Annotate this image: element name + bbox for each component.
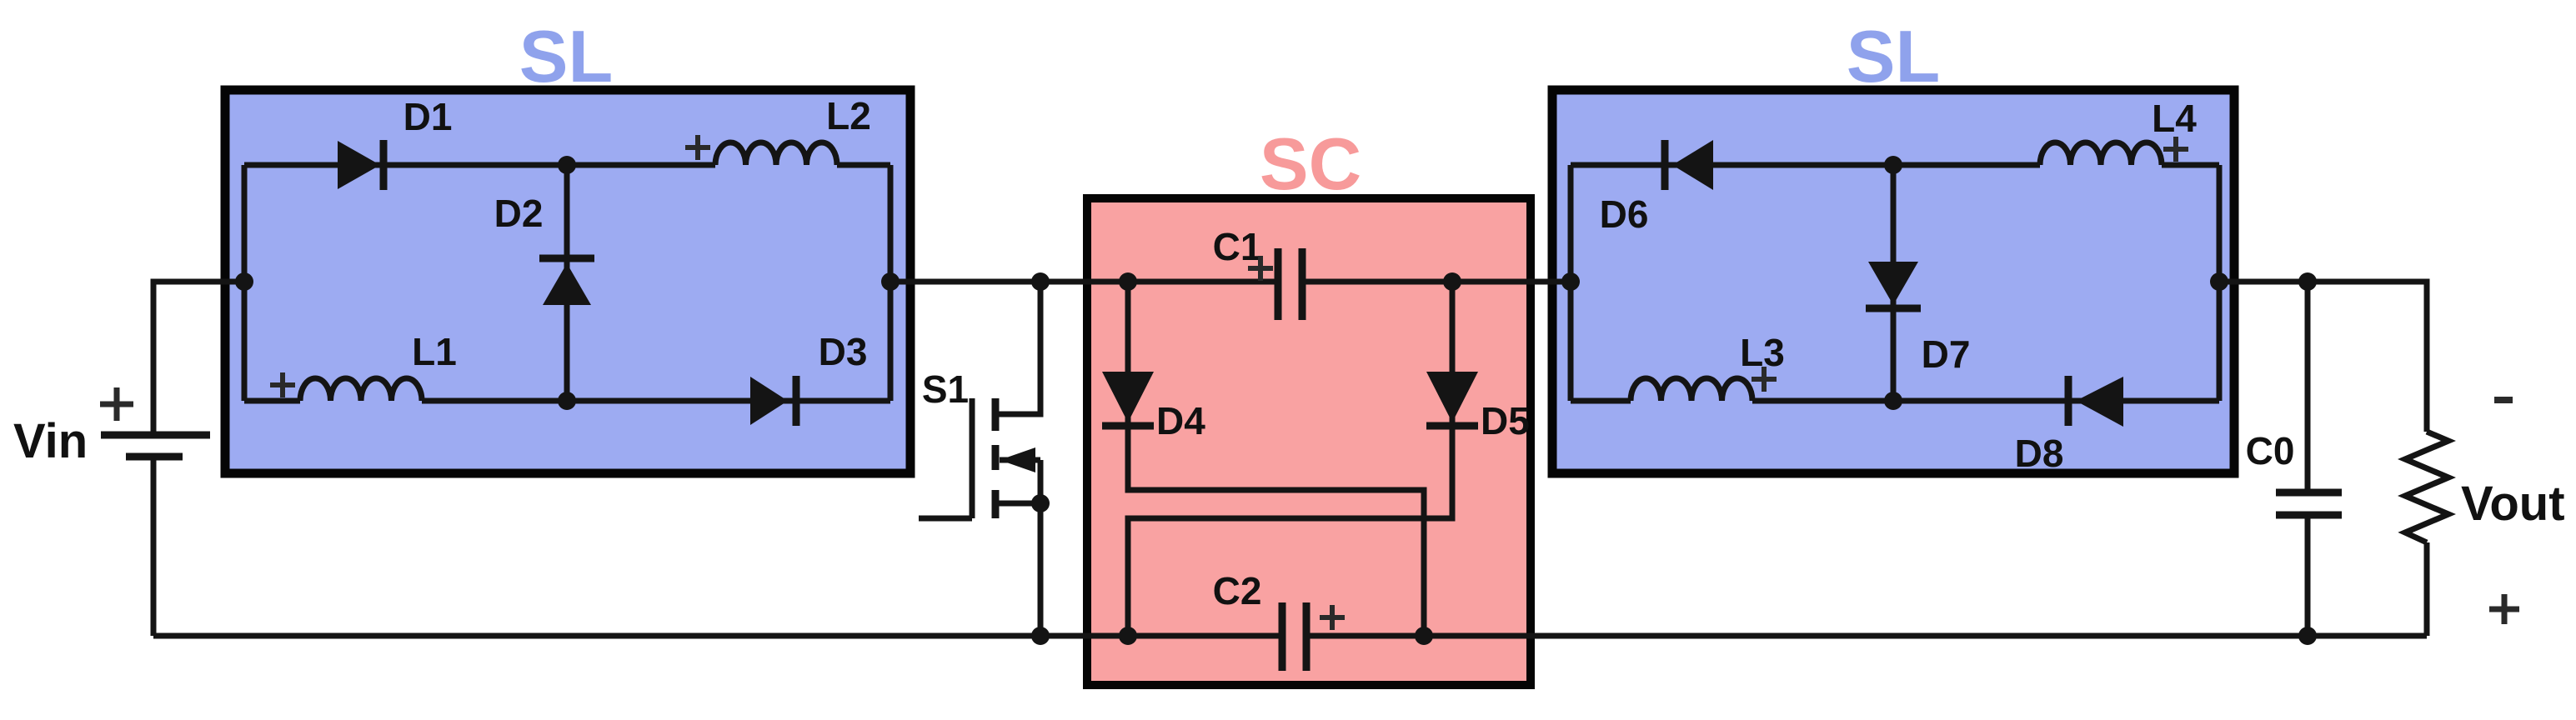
junction dot D5 branch to bottom rail	[1119, 627, 1137, 645]
bottom rail wire (left part, to C2 left plate)	[153, 633, 1279, 639]
wire: bottom rail right of L1	[422, 398, 890, 404]
inductor L2	[715, 142, 837, 165]
junction dot S1 drain tee	[1031, 272, 1050, 291]
plus sign of Vout	[2489, 594, 2519, 624]
svg-text:Vout: Vout	[2461, 477, 2565, 531]
diode D4 with branch wire	[1128, 282, 1424, 636]
wire: C1 right plate to cell 2	[1306, 279, 1571, 285]
SL cell 1 box	[225, 90, 910, 473]
wire: middle vertical of cell 1	[564, 165, 570, 401]
capacitor C0	[2276, 492, 2342, 515]
svg-text:Vin: Vin	[13, 414, 88, 468]
svg-text:L2: L2	[826, 94, 871, 137]
junction dot S1 to bottom rail	[1031, 627, 1050, 645]
resistor Vout load	[2405, 432, 2448, 542]
junction dot C0 top	[2298, 272, 2317, 291]
plus sign of L4	[2163, 137, 2188, 162]
wire: top rail of cell 2	[1571, 162, 2040, 168]
svg-text:D7: D7	[1922, 332, 1971, 376]
junction dot C0 bottom	[2298, 627, 2317, 645]
svg-text:L3: L3	[1740, 331, 1785, 374]
wire: cell 2 output to load	[2219, 282, 2427, 432]
plus sign of L1	[270, 372, 295, 397]
svg-text:S1: S1	[922, 367, 969, 411]
wire: C0 top lead	[2305, 282, 2311, 492]
svg-text:L4: L4	[2152, 97, 2197, 140]
inductor L4	[2040, 142, 2162, 165]
minus sign of Vout	[2494, 397, 2513, 403]
wire: bottom rail of cell 1	[244, 398, 300, 404]
svg-text:D8: D8	[2015, 432, 2064, 475]
svg-text:D1: D1	[403, 95, 453, 138]
wire: top rail right of L2	[837, 162, 890, 168]
svg-text:D5: D5	[1481, 399, 1530, 442]
wire: right inner vertical of cell 2	[2217, 165, 2223, 401]
svg-text:SL: SL	[519, 15, 613, 97]
diode D3	[750, 376, 796, 426]
wire: C0 bottom lead	[2305, 515, 2311, 636]
wire: load bottom lead	[2424, 542, 2430, 636]
svg-text:SL: SL	[1847, 15, 1940, 97]
wire: top rail of cell 1	[244, 162, 715, 168]
diode D5 with branch wire	[1128, 282, 1452, 636]
diode D6	[1665, 140, 1713, 190]
junction dot node bottom-mid cell 2	[1884, 392, 1902, 410]
svg-text:L1: L1	[412, 330, 457, 373]
plus sign of C1	[1248, 256, 1273, 281]
plus sign of L2	[685, 135, 710, 160]
svg-text:SC: SC	[1260, 122, 1361, 205]
diode D8	[2068, 376, 2123, 427]
svg-text:D2: D2	[494, 192, 544, 235]
inductor L3	[1631, 378, 1752, 401]
plus sign of C2	[1320, 605, 1345, 630]
svg-text:D6: D6	[1600, 192, 1649, 236]
wire: S1 source down to bottom rail	[1038, 460, 1044, 636]
diode D2	[539, 258, 594, 305]
junction dot node A (Vin joins cell 1)	[235, 272, 253, 291]
diode D7	[1866, 262, 1921, 308]
wire: bottom rail of cell 2	[1571, 398, 1631, 404]
wire: bottom rail right of L3	[1752, 398, 2219, 404]
wire: right inner vertical of cell 1	[888, 165, 894, 401]
bottom rail wire (right part, from C2 right plate)	[1310, 633, 2427, 639]
SC cell box	[1087, 198, 1531, 685]
diode D1	[338, 140, 383, 190]
svg-text:C2: C2	[1213, 569, 1262, 612]
junction dot node top-mid cell 1	[558, 156, 576, 174]
wire: middle vertical of cell 2	[1891, 165, 1897, 401]
wire: cell 1 output to SC input	[890, 279, 1275, 285]
svg-text:C0: C0	[2246, 429, 2295, 472]
junction dot node top-mid cell 2	[1884, 156, 1902, 174]
svg-text:D4: D4	[1156, 399, 1205, 442]
inductor L1	[300, 378, 422, 401]
wire: left inner vertical of cell 2	[1568, 165, 1574, 401]
junction dot D4 branch to bottom rail	[1415, 627, 1433, 645]
wire: left inner vertical of cell 1	[242, 165, 248, 401]
svg-text:C1: C1	[1213, 225, 1262, 268]
battery plus sign	[100, 387, 133, 421]
wire: Vin negative lead down to bottom rail	[151, 457, 157, 636]
SL cell 2 box	[1552, 90, 2234, 473]
plus sign of L3	[1752, 367, 1777, 392]
wire: S1 drain riser	[995, 282, 1040, 414]
wire: Vin positive lead up to node A	[153, 282, 244, 435]
battery Vin	[101, 435, 210, 457]
junction dot output node of cell 1	[881, 272, 900, 291]
junction dot D5 top	[1443, 272, 1461, 291]
svg-text:D3: D3	[819, 330, 868, 373]
junction dot D4 top	[1119, 272, 1137, 291]
wire: top rail right of L4	[2162, 162, 2219, 168]
transistor S1 (NMOS)	[919, 398, 1040, 518]
capacitor C1	[1278, 248, 1302, 320]
capacitor C2	[1282, 602, 1306, 671]
junction dot input node of cell 2	[1561, 272, 1580, 291]
junction dot S1 source	[1031, 494, 1050, 512]
junction dot node bottom-mid cell 1	[558, 392, 576, 410]
junction dot output node of cell 2	[2210, 272, 2228, 291]
